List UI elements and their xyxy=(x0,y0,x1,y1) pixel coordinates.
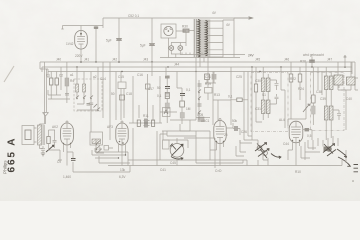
IF1 primary coil b xyxy=(266,78,270,92)
transformer T1 primary winding xyxy=(198,20,200,58)
box with marker right of V3 xyxy=(163,108,171,117)
svg-text:0,05: 0,05 xyxy=(197,113,203,117)
resistor R14 on y100 xyxy=(237,98,242,102)
IF1 trim capacitor top xyxy=(270,80,279,90)
tube V4 electrodes xyxy=(216,121,225,144)
tube V5 electrodes xyxy=(291,121,301,143)
wire: transformer drops to buses xyxy=(196,58,208,76)
potentiometer wiper arrows xyxy=(172,144,184,156)
svg-text:J41: J41 xyxy=(84,58,89,62)
electrolytic capacitors under transformer xyxy=(205,74,210,80)
IF1 secondary coil b xyxy=(266,100,270,114)
hook arrow 2 xyxy=(337,149,346,157)
frame aerial outer rectangle xyxy=(22,126,34,145)
terminal dashes right edge xyxy=(354,165,359,172)
wire: IF1 internal wiring xyxy=(256,67,268,120)
IF1 primary coil a xyxy=(261,78,265,92)
wire: nested grid return lines right of V3 xyxy=(92,148,128,166)
svg-text:C1: C1 xyxy=(46,74,50,78)
AF coupling small box left of V4 xyxy=(198,117,204,122)
svg-text:J42: J42 xyxy=(112,58,117,62)
wire: heater line with ticks y54.5 xyxy=(180,54,245,56)
trimmer block 2 dark coil xyxy=(324,147,332,152)
band switch resistor chain R3 xyxy=(65,78,69,86)
wire: left riser to cap xyxy=(72,162,74,172)
svg-text:C30: C30 xyxy=(255,79,261,83)
svg-text:a1: a1 xyxy=(70,73,74,77)
transformer T1 secondary winding xyxy=(206,21,208,56)
svg-text:S1: S1 xyxy=(262,93,266,97)
wire: V5 screen column x300 xyxy=(291,62,306,119)
junction dots on buses xyxy=(76,61,346,72)
wire: grid line y123 between V3 and pot xyxy=(129,122,162,124)
svg-text:50: 50 xyxy=(157,86,161,90)
wire: nested corners left of IF1 trimmers xyxy=(236,140,258,166)
tone switch diagonal near V5 xyxy=(303,104,310,112)
input coil with core (hatched) xyxy=(38,125,42,145)
output transformer secondary / speaker coil xyxy=(347,77,356,85)
svg-text:50: 50 xyxy=(111,92,115,96)
wire: switch section verticals xyxy=(40,62,67,99)
capacitor block on x148 xyxy=(145,84,150,89)
IF2 primary coil b xyxy=(329,76,333,90)
wire: IF1 to V4 couplings xyxy=(252,67,285,140)
svg-text:C41: C41 xyxy=(160,168,166,172)
band switch resistor chain R2 xyxy=(55,78,58,85)
svg-text:5µF: 5µF xyxy=(106,39,112,43)
svg-text:J46: J46 xyxy=(284,58,289,62)
resistor R8 on y123 xyxy=(137,120,140,126)
IF2 resistor stack xyxy=(312,95,316,103)
wire: arrow tip at right end of top rail xyxy=(249,17,253,19)
wire: AF links around V4 xyxy=(180,124,215,168)
resistor R9 on y123 xyxy=(152,120,155,126)
svg-text:0,5: 0,5 xyxy=(307,134,312,138)
ground symbol under input coil xyxy=(41,153,45,156)
grid cap lead V4 xyxy=(226,123,233,128)
transformer T1 core xyxy=(194,19,196,57)
wire: stub terminal at left of rail xyxy=(61,26,63,30)
svg-text:220V: 220V xyxy=(75,54,83,58)
resistor R30 above transformer left xyxy=(183,29,189,32)
wire: main bus y62 xyxy=(40,61,355,63)
wire: main bus y71.5 xyxy=(48,71,352,73)
svg-text:C39: C39 xyxy=(320,97,326,101)
wire: bus left end turns down xyxy=(40,62,42,72)
switch contacts column near V4 xyxy=(198,80,200,120)
svg-text:R30: R30 xyxy=(182,25,188,29)
svg-text:C2: C2 xyxy=(59,74,63,78)
IF1 secondary coil a xyxy=(261,100,265,114)
capacitor at V4 grid xyxy=(235,126,237,131)
tuning trimmer starburst 2 (osc) xyxy=(323,144,336,156)
wire: verticals mid x133-160 xyxy=(133,62,166,123)
cathode resistor box near V3 xyxy=(104,146,109,151)
trimmer cap body circles IF1 xyxy=(257,146,262,151)
wire: IF1 trimmer connections xyxy=(240,140,268,166)
wire: bottom right riser xyxy=(342,150,346,166)
svg-text:0,1: 0,1 xyxy=(228,95,233,99)
svg-text:C14: C14 xyxy=(100,77,106,81)
wire: oscillator verticals xyxy=(77,62,116,140)
wire: V5 pin leads xyxy=(293,141,300,161)
terminal mark top right xyxy=(344,55,347,57)
wire: y100 link xyxy=(213,99,231,101)
svg-text:wird gebraucht: wird gebraucht xyxy=(303,53,324,57)
band switch resistor chain R1 xyxy=(50,78,53,85)
tube V3 (AF3) envelope xyxy=(116,123,128,145)
svg-text:C18: C18 xyxy=(126,92,132,96)
wire: osc trimmer connections xyxy=(305,136,338,152)
junction dots at V3 pins xyxy=(118,154,126,158)
svg-text:J47: J47 xyxy=(327,58,332,62)
svg-text:R4: R4 xyxy=(70,79,74,83)
oscillator coil L5 xyxy=(76,84,79,92)
rectifier socket box xyxy=(161,24,176,38)
capacitor on left riser xyxy=(71,159,76,161)
IF2 secondary coil a xyxy=(324,106,328,120)
capacitor C50 on vertical x96 xyxy=(94,26,98,63)
capacitor block on x122 pair xyxy=(120,95,125,100)
band switch contacts near V3 cathode xyxy=(96,141,101,154)
svg-text:a: a xyxy=(352,179,354,183)
svg-text:13k: 13k xyxy=(120,168,126,172)
capacitor to ground below coil xyxy=(41,146,45,153)
svg-text:25: 25 xyxy=(224,133,228,137)
tube V2 electrodes xyxy=(63,123,72,145)
trimmer cap body circles osc xyxy=(327,147,332,152)
antenna symbol xyxy=(43,113,49,125)
svg-text:1V42: 1V42 xyxy=(66,42,74,46)
wire: antenna feed to coil top xyxy=(40,124,45,125)
svg-text:J44: J44 xyxy=(174,63,179,67)
svg-text:0,1: 0,1 xyxy=(186,88,191,92)
tube V1 envelope (top left) xyxy=(75,31,88,50)
svg-text:a2: a2 xyxy=(93,75,97,79)
tube V1 internal anode/grid xyxy=(77,31,85,49)
capacitor pair left of V2 xyxy=(49,130,57,150)
component chain column x167 xyxy=(165,76,170,79)
junction dot bottom right xyxy=(345,156,347,158)
wire: x167 chain links xyxy=(166,79,168,113)
wire: V5 cathode to bus xyxy=(288,150,296,166)
hook arrow right of IF1 trimmers xyxy=(271,154,281,159)
capacitor C51 on vertical x119 xyxy=(116,18,122,62)
wire: nested corners left of osc trimmers xyxy=(301,142,310,160)
svg-text:C15: C15 xyxy=(118,75,124,79)
big adjustment arrow bottom right xyxy=(338,157,350,166)
wire: V2 area links to ground bus xyxy=(49,150,63,160)
grid cap on tube V3 xyxy=(121,121,123,123)
wire: frame aerial links xyxy=(34,128,37,142)
wire: right end verticals xyxy=(345,57,355,90)
tube V4 (ABC1) envelope xyxy=(214,121,226,144)
capacitor in switch section xyxy=(65,94,69,96)
resistor at V2 cathode xyxy=(47,137,50,144)
wire: mid nested lines y160-163 xyxy=(128,160,247,166)
wire: y117 stub xyxy=(196,117,210,119)
component at V5 right xyxy=(305,128,310,131)
wire: verticals near V4 xyxy=(208,67,248,140)
wire: drop from top rail to tube branch xyxy=(102,18,104,28)
wire: V3 pin leads xyxy=(119,144,126,166)
svg-text:C45: C45 xyxy=(170,161,176,165)
IF2 primary coil a xyxy=(324,76,328,90)
output transformer primary coil xyxy=(334,75,343,85)
IF2 trim capacitors xyxy=(333,78,341,120)
svg-text:C38: C38 xyxy=(316,90,322,94)
trimmer arrow on V2 cathode xyxy=(46,145,54,152)
svg-text:J45: J45 xyxy=(255,58,260,62)
svg-text:C21: C21 xyxy=(205,75,211,79)
rectifier tube top view circle xyxy=(164,26,173,35)
detector components column x182 xyxy=(180,94,185,96)
svg-text:1,5k: 1,5k xyxy=(96,147,102,151)
svg-text:C9: C9 xyxy=(57,160,61,164)
svg-text:R11: R11 xyxy=(143,114,149,118)
capacitor C53 on vertical x152 xyxy=(149,18,155,62)
wire: secondary taps to right xyxy=(207,21,223,57)
IF1 resistor left xyxy=(254,84,257,92)
grid cap on tube V2 xyxy=(66,121,68,123)
dial lamp L1 xyxy=(169,46,174,51)
IF1 trim capacitor bottom xyxy=(270,94,279,104)
svg-text:50k: 50k xyxy=(232,119,238,123)
svg-text:5µF: 5µF xyxy=(140,44,146,48)
svg-text:J40: J40 xyxy=(56,58,61,62)
svg-text:AK2: AK2 xyxy=(52,125,58,129)
wire: rail y28 to rectifier tube V1 xyxy=(63,25,104,27)
transformer T1 winding underlay xyxy=(197,20,211,58)
svg-text:C26: C26 xyxy=(241,130,247,134)
coil can between V2 and V3 xyxy=(90,132,103,145)
wave switch dashed enclosure xyxy=(74,79,102,111)
svg-text:R19: R19 xyxy=(205,82,211,86)
svg-text:24V: 24V xyxy=(248,54,255,58)
svg-text:R28: R28 xyxy=(300,60,306,64)
switch contact X mid xyxy=(87,104,98,108)
svg-text:R24: R24 xyxy=(298,87,304,91)
svg-text:AF3: AF3 xyxy=(107,125,113,129)
svg-text:6,3V: 6,3V xyxy=(119,175,126,179)
IF can 1 dash-dot outline xyxy=(251,73,288,132)
grid cap on tube V4 xyxy=(219,119,221,121)
wire: V2 pin leads xyxy=(64,144,71,166)
svg-text:R13: R13 xyxy=(214,93,220,97)
padder capacitor C12 xyxy=(89,103,93,110)
wire: coil bottom to capacitor xyxy=(40,145,44,149)
svg-text:0,1: 0,1 xyxy=(157,94,162,98)
wire: oscillator cross links xyxy=(77,99,98,110)
svg-text:C17: C17 xyxy=(148,87,154,91)
wire: bottom left bus y172 xyxy=(73,166,130,173)
frame aerial inner rectangle xyxy=(25,130,31,140)
wire: IF2 internal wiring xyxy=(326,67,331,140)
wire: AVC line left of starbursts xyxy=(244,136,252,140)
wire: switch section horizontals xyxy=(48,90,70,103)
potentiometer circle (volume) xyxy=(170,144,184,158)
svg-text:C31: C31 xyxy=(255,107,261,111)
svg-text:1M: 1M xyxy=(186,107,191,111)
resistor R24 body xyxy=(298,74,302,82)
IF2 secondary coil b xyxy=(329,106,333,120)
wire: R30 to core xyxy=(186,31,194,46)
wire: transformer bottom rail y57.5 xyxy=(160,57,240,59)
volume control box xyxy=(205,88,213,94)
svg-text:1,460: 1,460 xyxy=(63,175,71,179)
svg-text:C16: C16 xyxy=(137,73,143,77)
wire: bottom ground bus y165.5 xyxy=(108,165,342,167)
potentiometer hook arrow xyxy=(171,157,183,160)
IF can 2 dash-dot outline xyxy=(311,73,345,131)
wire: double vertical x122 xyxy=(121,72,124,121)
wire: x182 links xyxy=(177,72,182,125)
switch contact marks left column xyxy=(76,96,100,111)
wire: verticals around IF2 xyxy=(318,67,346,130)
wire: V4 stage to bottom xyxy=(210,150,220,166)
svg-text:C52 0,1: C52 0,1 xyxy=(128,14,139,18)
heater tick marks xyxy=(182,53,202,55)
wire: y119 link to V5 grid xyxy=(288,119,306,126)
svg-text:C25: C25 xyxy=(236,75,242,79)
tube V5 (AL4) envelope xyxy=(289,121,303,143)
svg-text:C44: C44 xyxy=(283,142,289,146)
svg-text:J43: J43 xyxy=(143,58,148,62)
small box on x122 line xyxy=(118,82,126,89)
wire: output transformer links xyxy=(338,62,358,90)
tuning trimmer starburst 1 (IF1) xyxy=(255,143,269,158)
svg-text:C×D: C×D xyxy=(215,169,222,173)
wire: lamps wiring xyxy=(171,43,186,58)
wire: x234 vertical and link to top rail arrow xyxy=(223,18,251,57)
wire: main bus y67 xyxy=(42,66,352,68)
wire: V4 pin leads xyxy=(217,142,224,161)
faint pencil scratch top left xyxy=(4,66,14,82)
tube V3 electrodes xyxy=(118,123,127,145)
wire: pot feed lines xyxy=(157,131,196,166)
wire: aux branch x312 with resistor xyxy=(311,57,313,68)
svg-text:R10: R10 xyxy=(295,170,301,174)
tube V2 (AK2) envelope xyxy=(61,123,74,145)
wire: AF coupling horizontals xyxy=(160,72,196,132)
svg-text:C40: C40 xyxy=(346,97,352,101)
oscillator coil L6 xyxy=(83,84,86,92)
wire: V3 cathode links xyxy=(96,128,133,166)
svg-text:AL4: AL4 xyxy=(279,118,285,122)
wire: socket box to transformer xyxy=(168,31,186,58)
wire: right vertical collector x223 xyxy=(222,20,224,57)
coupling capacitor pair C20 xyxy=(145,119,147,128)
wire: antenna lead vertical pair xyxy=(45,62,47,124)
lower small box x163-169 xyxy=(163,140,170,149)
wire: top HT rail y18 xyxy=(103,17,251,19)
dial lamp L2 xyxy=(178,46,183,51)
wire: tube V1 cathode down to bus xyxy=(80,26,82,63)
resistor R22 body xyxy=(289,74,293,82)
svg-text:665 A: 665 A xyxy=(6,137,17,173)
